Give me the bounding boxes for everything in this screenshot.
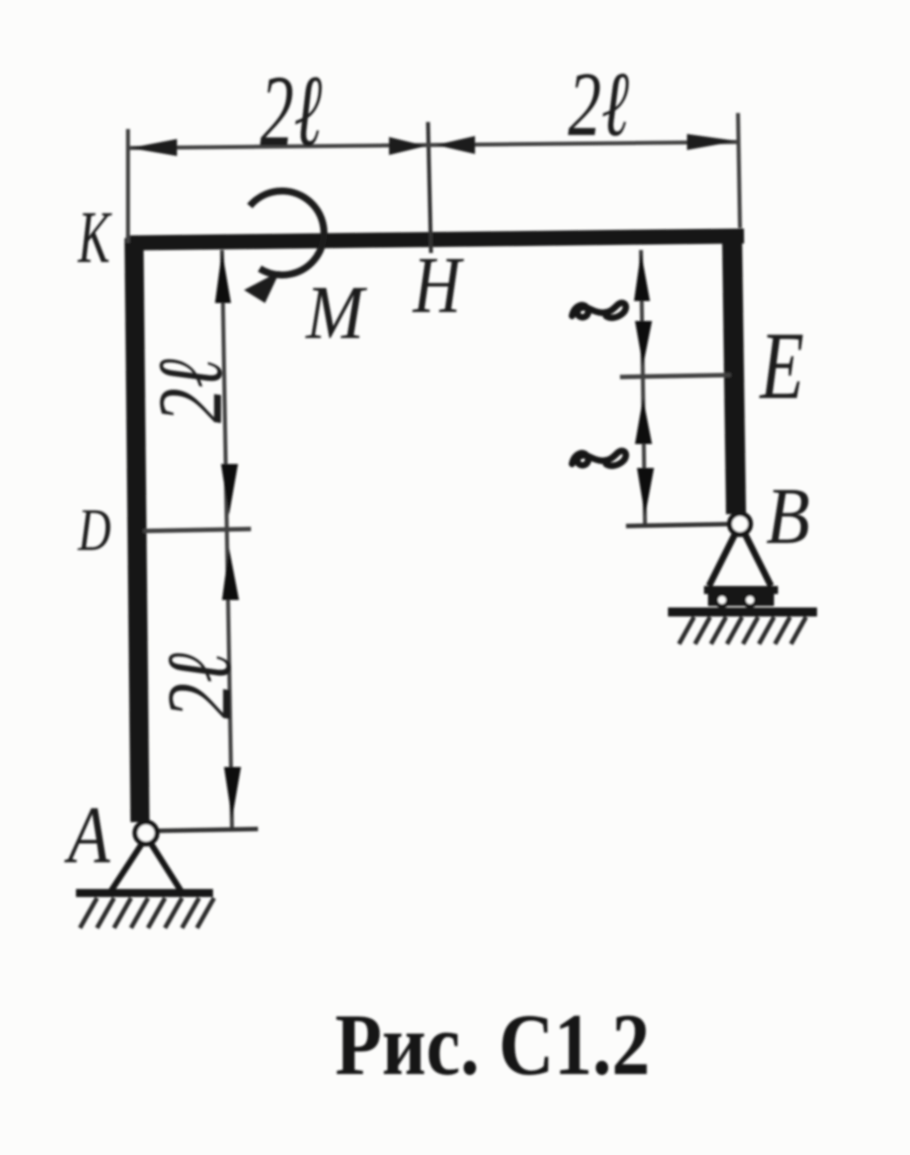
support B roller bar — [708, 594, 774, 606]
label l right upper (handwritten script ell, lying horizontally) — [572, 303, 626, 318]
top dimension tick at H — [428, 122, 431, 253]
tick B level — [626, 524, 734, 526]
tick E — [620, 375, 731, 377]
frame member K-corner horizontal beam — [126, 236, 744, 243]
label l right lower (handwritten script ell, lying horizontally) — [572, 451, 626, 466]
support B ground line — [668, 608, 817, 617]
tick A level — [148, 829, 258, 831]
svg-text:2ℓ: 2ℓ — [139, 359, 241, 423]
support B triangle right side — [744, 532, 771, 586]
arrowhead down to D tick — [221, 464, 238, 515]
support A ground line — [76, 889, 213, 897]
svg-text:2ℓ: 2ℓ — [148, 653, 250, 719]
support A pin circle — [135, 822, 157, 844]
support B roller left — [716, 594, 728, 606]
arrowhead down to A tick — [224, 767, 241, 819]
arrowhead up to beam (right) — [634, 252, 650, 301]
svg-text:A: A — [64, 789, 111, 880]
frame member left column K-A — [134, 238, 140, 822]
tick D — [143, 529, 251, 531]
arrowhead left outward — [130, 139, 177, 156]
arrowhead right outward — [687, 134, 737, 150]
arrowhead up to beam — [215, 251, 231, 303]
svg-text:K: K — [77, 197, 112, 279]
arrowhead pointing left to tick H — [436, 136, 475, 154]
support B roller right — [744, 594, 756, 606]
moment M arc — [250, 191, 324, 275]
svg-text:2ℓ: 2ℓ — [260, 55, 322, 168]
support B triangle left side — [709, 532, 736, 586]
svg-text:B: B — [766, 473, 810, 561]
support A triangle right side — [150, 842, 181, 891]
frame member right column to B — [732, 232, 736, 514]
svg-text:E: E — [758, 312, 804, 419]
arrowhead up from below E — [635, 398, 652, 444]
svg-text:H: H — [412, 242, 464, 330]
support A hatching — [80, 898, 214, 928]
top dimension extension line right — [738, 113, 740, 228]
svg-text:2ℓ: 2ℓ — [568, 53, 629, 155]
svg-text:D: D — [77, 497, 111, 563]
arrowhead down to B tick — [637, 468, 654, 516]
top dimension extension line left — [126, 129, 130, 243]
support B base line — [704, 586, 778, 594]
right dimension line x~643 — [641, 250, 645, 526]
svg-text:Рис. С1.2: Рис. С1.2 — [335, 997, 650, 1094]
arrowhead down to E tick — [635, 321, 652, 366]
arrowhead pointing right to tick H — [389, 137, 426, 155]
support A triangle left side — [111, 842, 143, 891]
arrowhead up from below D — [222, 548, 239, 600]
svg-text:M: M — [305, 271, 367, 355]
support B pin circle — [730, 514, 751, 535]
left dimension line x~227 — [222, 250, 232, 828]
support B hatching — [679, 617, 806, 644]
moment M arrowhead — [244, 271, 280, 303]
top dimension line — [128, 142, 738, 148]
